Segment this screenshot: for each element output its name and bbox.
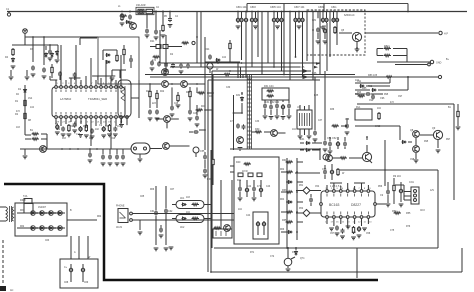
antenna ANT1 [23, 29, 28, 45]
svg-text:C31 C32 104: C31 C32 104 [265, 101, 280, 104]
svg-text:C37: C37 [318, 120, 323, 122]
svg-text:TDA8841_SER: TDA8841_SER [88, 97, 107, 101]
svg-text:104: 104 [352, 232, 357, 234]
diode D605 [31, 226, 36, 231]
svg-text:C68: C68 [64, 282, 69, 284]
wire [230, 166, 234, 172]
svg-text:RL1: RL1 [356, 106, 361, 109]
svg-text:R95: R95 [384, 94, 389, 96]
wire [205, 155, 213, 185]
svg-text:PHONE: PHONE [116, 205, 125, 208]
svg-text:R30: R30 [255, 128, 260, 131]
svg-text:6Z300 AC: 6Z300 AC [344, 14, 355, 17]
svg-text:R55: R55 [406, 212, 411, 215]
wire video out rail [128, 83, 161, 85]
diode D410 [306, 142, 311, 145]
resistor R502 [337, 168, 339, 176]
svg-text:4: 4 [342, 188, 344, 190]
svg-text:R76: R76 [406, 226, 411, 228]
svg-text:102: 102 [95, 129, 100, 131]
transistor Q831 [413, 146, 420, 153]
svg-text:12V: 12V [430, 190, 435, 192]
svg-text:17: 17 [331, 222, 334, 224]
svg-text:R31 C44: R31 C44 [264, 85, 274, 88]
wire bus D [145, 74, 355, 76]
capacitor C803 [250, 12, 257, 24]
transistor Q103 [181, 81, 188, 88]
wire [355, 126, 400, 140]
svg-text:14: 14 [347, 222, 350, 224]
svg-text:3: 3 [68, 83, 70, 85]
svg-text:R4: R4 [5, 56, 9, 59]
capacitor C102 [31, 65, 36, 76]
capacitor C809 [318, 12, 328, 24]
svg-text:R22: R22 [160, 91, 165, 93]
wire bottom rails [211, 150, 462, 272]
pin bubbles U2 sides [320, 203, 377, 206]
ground [110, 78, 115, 81]
keypad box SW1 [213, 229, 232, 238]
svg-text:C96: C96 [380, 97, 385, 100]
svg-text:Q9: Q9 [432, 127, 436, 130]
wire band tap [252, 131, 255, 133]
ground [55, 132, 60, 135]
wire antenna feed [12, 37, 98, 65]
svg-text:C81: C81 [312, 20, 317, 22]
zener D610 [295, 248, 298, 256]
svg-text:R24: R24 [205, 48, 210, 51]
diode D603 [49, 211, 54, 216]
transistor Q504 [296, 210, 321, 217]
svg-text:C62: C62 [168, 210, 173, 213]
ground [238, 198, 243, 201]
tuner shield outline [136, 7, 154, 14]
svg-text:CN1: CN1 [409, 181, 414, 184]
svg-text:R52: R52 [392, 210, 397, 213]
svg-text:472: 472 [16, 111, 21, 113]
ground [321, 27, 326, 30]
transistor Q801 [352, 32, 361, 48]
ground [72, 130, 77, 133]
svg-text:C69: C69 [84, 282, 89, 284]
svg-text:103: 103 [62, 138, 67, 140]
ground [61, 134, 66, 137]
ground [253, 26, 258, 29]
diode D103 [24, 89, 27, 94]
svg-text:D73: D73 [292, 252, 297, 254]
svg-text:C44: C44 [246, 215, 251, 217]
wire riser to upper rail [247, 4, 408, 12]
svg-text:D51: D51 [299, 185, 304, 187]
svg-text:B1: B1 [448, 107, 452, 109]
diode D111 [106, 61, 111, 64]
svg-text:R64: R64 [97, 216, 102, 218]
wire [234, 93, 243, 113]
pin bubbles U2 bottom [326, 216, 370, 219]
capacitor C403 [252, 186, 256, 191]
svg-text:103: 103 [16, 127, 21, 129]
ground [414, 160, 419, 163]
capacitor C318 [313, 130, 318, 141]
wire [395, 76, 438, 78]
wire [150, 148, 162, 150]
svg-text:R66: R66 [150, 189, 155, 191]
wire risers tuner [160, 12, 205, 75]
resistor R105 [24, 112, 26, 120]
ground [145, 35, 150, 38]
headphone jack J1 [116, 205, 132, 230]
relay box K1 [355, 109, 372, 120]
capacitor C802 [128, 14, 132, 19]
capacitor C510 [340, 228, 345, 238]
svg-text:R21: R21 [146, 91, 151, 93]
ground [362, 228, 367, 231]
diode D830 [372, 89, 377, 92]
ground [263, 116, 268, 119]
diode D406 [288, 201, 293, 204]
wire connector feeds [395, 185, 411, 200]
ground [297, 26, 302, 29]
svg-text:T2A: T2A [23, 195, 28, 198]
svg-text:R21: R21 [150, 40, 155, 43]
ground [154, 248, 159, 251]
svg-text:R821: R821 [384, 45, 390, 48]
capacitor C116 [113, 126, 117, 131]
svg-text:R8: R8 [28, 120, 32, 122]
capacitor C131 [155, 109, 160, 120]
capacitor C101 [48, 49, 52, 54]
wire [296, 23, 303, 63]
isolation barrier thick [4, 184, 378, 280]
resistor R810 [224, 73, 232, 75]
ground [203, 175, 208, 178]
resistor R501 [340, 157, 348, 159]
wire [156, 119, 179, 128]
resistor R407 [286, 191, 294, 193]
svg-text:471: 471 [83, 126, 88, 128]
wire IF feed [233, 95, 235, 150]
svg-text:R65: R65 [282, 219, 287, 222]
svg-text:104: 104 [238, 209, 243, 211]
resistor R402 [238, 173, 262, 177]
diode D832 [360, 85, 391, 88]
capacitor C113 [79, 126, 82, 132]
capacitor C505 [323, 165, 327, 179]
diode D813 arrow [314, 66, 318, 69]
ground [287, 116, 292, 119]
wire [355, 77, 408, 90]
wire U3 pins [300, 105, 309, 135]
diode D203 [216, 59, 221, 62]
svg-text:AV1: AV1 [180, 197, 185, 200]
wire band feeders [238, 63, 243, 78]
transistor Q202 [162, 69, 169, 76]
capacitor C304 [281, 104, 284, 110]
capacitor C305 [287, 103, 291, 108]
wire [295, 172, 320, 174]
resistor R403 [214, 227, 222, 229]
resistor R113 [108, 124, 110, 132]
wire left column [11, 70, 27, 135]
wire bus A [160, 62, 320, 64]
resistor R520 [393, 178, 395, 204]
svg-text:AV2: AV2 [180, 226, 185, 229]
svg-text:R5: R5 [164, 16, 168, 18]
pin numbers U1 bottom [57, 121, 124, 123]
svg-text:C67: C67 [170, 189, 175, 191]
svg-text:B1: B1 [30, 129, 34, 132]
capacitor C803 [145, 28, 149, 33]
resistor R815 [334, 26, 336, 34]
capacitor C134 [189, 130, 205, 134]
svg-text:D6x8: D6x8 [20, 199, 26, 202]
wire U1 bottom pin stubs [56, 118, 121, 149]
ground [275, 26, 280, 29]
resistor R822 [384, 54, 392, 56]
ground [298, 136, 303, 139]
wire [229, 40, 231, 62]
transistor Q301 [237, 137, 244, 144]
svg-text:R14: R14 [70, 126, 75, 128]
inductor L801 [146, 9, 153, 13]
svg-text:B: B [70, 209, 72, 212]
diode D201 [182, 41, 196, 44]
resistor R831 [358, 95, 366, 97]
ground [128, 22, 133, 25]
capacitor C122 [108, 149, 113, 166]
diode D104 [45, 53, 48, 58]
resistor R804 [161, 24, 166, 38]
svg-text:C65: C65 [140, 196, 145, 198]
svg-text:C26: C26 [193, 113, 198, 115]
wire section bottom [214, 247, 438, 249]
junction [36, 212, 56, 229]
capacitor C611 rail [164, 186, 168, 245]
wire U2 top stubs [327, 183, 368, 190]
svg-text:L1: L1 [118, 6, 121, 8]
ground [150, 68, 155, 71]
wire crystal stubs [122, 118, 128, 125]
svg-text:16: 16 [336, 222, 339, 224]
wire [169, 83, 181, 85]
diode D405 [288, 181, 293, 184]
svg-text:25: 25 [74, 121, 77, 123]
wire top supply bus [7, 11, 467, 13]
capacitor C521 [399, 182, 404, 207]
wire U2 bottom stubs [327, 218, 368, 228]
transistor Q502 [362, 152, 372, 163]
transistor Q501 [326, 155, 333, 162]
svg-text:C13: C13 [76, 134, 81, 136]
capacitor C126 [203, 152, 207, 160]
svg-text:2: 2 [62, 83, 64, 85]
wire mains dashed edge [2, 240, 4, 285]
capacitor C123 [115, 149, 120, 166]
capacitor C801 [236, 12, 247, 24]
resistor R127 [196, 109, 214, 111]
wire [265, 100, 289, 115]
svg-text:D62: D62 [20, 226, 25, 228]
wire [17, 203, 65, 228]
svg-text:D8227: D8227 [351, 203, 361, 207]
shield box 6Z300AC dashed [307, 10, 365, 55]
svg-text:C803: C803 [250, 6, 256, 9]
crystal X1 [118, 80, 131, 117]
resistor R123 [176, 92, 181, 108]
svg-text:7: 7 [91, 83, 93, 85]
resistor R830 [386, 76, 394, 78]
ground [275, 116, 280, 119]
svg-text:223: 223 [152, 103, 157, 105]
wire U1 top pin stubs [56, 45, 121, 86]
svg-text:1N4: 1N4 [28, 98, 33, 100]
junction [237, 11, 334, 13]
wire [318, 33, 325, 39]
ground [238, 148, 243, 151]
wire [170, 145, 190, 147]
svg-text:C42: C42 [247, 186, 252, 188]
svg-text:R64: R64 [280, 199, 285, 201]
svg-text:D1: D1 [18, 88, 22, 91]
pin bubbles U1 top [55, 86, 123, 89]
capacitor C302 [269, 104, 273, 109]
capacitor C401 [238, 186, 242, 191]
wire [205, 61, 240, 63]
ground [164, 248, 169, 251]
svg-text:C35: C35 [300, 66, 305, 69]
wire [313, 12, 337, 58]
wire [274, 12, 290, 75]
svg-text:1N4007: 1N4007 [38, 207, 47, 209]
resistor R111 [68, 124, 70, 132]
wire upper B+ rail [247, 3, 408, 5]
diode D831 [402, 141, 407, 144]
svg-text:C63: C63 [45, 240, 50, 242]
wire aux row [355, 79, 390, 83]
capacitor C110a [58, 71, 62, 80]
wire [139, 220, 141, 230]
resistor R104 [24, 99, 26, 107]
svg-text:104: 104 [292, 129, 297, 131]
capacitor C520 [386, 182, 391, 207]
resistor R107 [32, 138, 40, 140]
svg-text:C61: C61 [150, 210, 155, 213]
terminal HP [439, 31, 449, 35]
ground [23, 156, 28, 159]
svg-text:11: 11 [364, 222, 367, 224]
wire [385, 140, 395, 186]
diode D110 [106, 54, 111, 57]
ground [252, 198, 257, 201]
svg-text:C58: C58 [366, 233, 371, 235]
svg-text:D95: D95 [424, 141, 429, 143]
capacitor C111b [129, 57, 133, 62]
diode D101 [12, 58, 15, 63]
capacitor C612 [159, 225, 164, 238]
svg-text:R1: R1 [15, 100, 19, 103]
junction [287, 247, 289, 249]
pin numbers U2 [325, 188, 372, 224]
svg-text:27: 27 [62, 121, 65, 123]
svg-text:104: 104 [30, 106, 35, 109]
svg-text:D41: D41 [300, 138, 305, 141]
junction [162, 11, 164, 13]
pin bubble crystal [120, 116, 128, 119]
svg-text:10: 10 [369, 222, 372, 224]
ground [120, 23, 125, 26]
wire collector out [339, 32, 438, 34]
ground [436, 150, 441, 153]
svg-text:R82: R82 [322, 26, 327, 28]
wire tuner drop [147, 12, 163, 31]
ground [101, 135, 106, 138]
ground [281, 117, 286, 120]
diode D105 [51, 53, 54, 58]
terminal T3 [438, 75, 441, 78]
capacitor C610 rail [154, 186, 158, 245]
svg-text:C2: C2 [156, 7, 160, 9]
pin numbers U1 top [57, 83, 124, 85]
wire filter link [131, 80, 139, 118]
capacitor C124 [121, 149, 126, 166]
diode D811 arrow [303, 76, 307, 79]
filter box FL301 [262, 88, 289, 100]
capacitor C308 [242, 124, 246, 129]
svg-text:D2: D2 [16, 94, 20, 96]
wire [25, 134, 47, 149]
wire [172, 205, 212, 219]
junction [32, 36, 51, 46]
capacitor C404 [259, 187, 262, 193]
svg-text:15: 15 [342, 222, 345, 224]
capacitor C114 [90, 128, 94, 133]
svg-text:D52: D52 [299, 208, 304, 210]
junction [155, 11, 409, 273]
diode D812 arrow [316, 62, 320, 65]
terminal AUD [428, 63, 431, 66]
resistor R405 [286, 161, 294, 163]
svg-text:D93: D93 [357, 92, 362, 94]
svg-text:C98: C98 [410, 159, 415, 161]
junction [155, 11, 157, 13]
capacitor box C405 [253, 212, 268, 239]
wire [150, 46, 182, 48]
resistor R408 [286, 211, 294, 213]
ground [55, 60, 60, 63]
capacitor C112 [73, 122, 77, 127]
ground [164, 70, 169, 73]
ground [25, 77, 30, 80]
ground [169, 247, 174, 250]
svg-text:104: 104 [377, 108, 382, 110]
delay line DL1 [176, 201, 204, 209]
svg-text:R2: R2 [15, 113, 19, 116]
diode D407 [288, 231, 293, 234]
wire av lines [132, 214, 234, 221]
svg-text:AV-IN: AV-IN [116, 226, 122, 229]
wire secondary [67, 220, 97, 259]
svg-text:C97: C97 [398, 96, 403, 98]
diode D801 [126, 21, 131, 24]
svg-text:GND: GND [436, 62, 442, 65]
svg-text:BC163: BC163 [329, 203, 339, 207]
svg-text:C36: C36 [312, 72, 317, 75]
capacitor C103 [42, 67, 47, 78]
svg-text:18: 18 [325, 222, 328, 224]
svg-text:C801 104: C801 104 [236, 6, 247, 9]
pin bubbles U2 top [326, 190, 370, 193]
capacitor C503 [343, 137, 347, 149]
